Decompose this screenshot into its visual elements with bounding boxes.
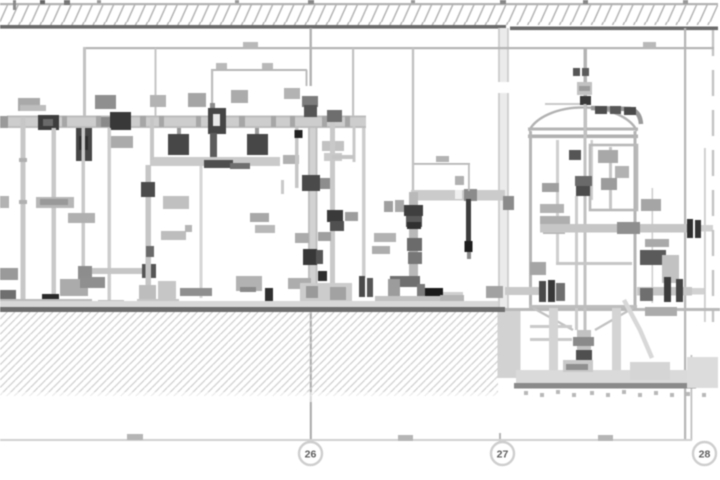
overhead dimension line: [84, 42, 714, 49]
ladder diagonal: [624, 300, 652, 358]
label x230: [231, 90, 248, 103]
label x165 y197: [163, 196, 189, 209]
vessel leg left: [544, 308, 564, 381]
pipe stub beyond upper flanges: [701, 225, 713, 232]
level instrument on centerline: [569, 150, 592, 196]
floor furniture x98-178: [98, 281, 179, 308]
flange pair at right wall upper: [687, 219, 701, 238]
label above CV: [188, 93, 206, 107]
standpipe x54 from valve V1: [52, 128, 57, 298]
drain leg x268: [265, 288, 273, 303]
riser drop from overhead line at x84: [83, 47, 86, 118]
valve cluster below side nozzle: [640, 239, 679, 283]
standpipe x83: [82, 128, 86, 273]
label x530 y263: [530, 262, 546, 275]
valve V1 on header: [38, 115, 59, 130]
faint drop below CV manifold: [200, 166, 203, 298]
label tags x250 y215: [250, 213, 275, 233]
label x68 y213: [68, 213, 95, 223]
bypass header below CV: [150, 118, 280, 169]
pump P2 black casing: [417, 284, 443, 305]
floor cluster near grid26: [300, 283, 352, 303]
left standpipe x22: [19, 117, 27, 301]
label box x237 y277: [236, 276, 262, 292]
vessel leg right: [606, 308, 626, 381]
vertical process pipe x413 valve stack: [404, 192, 423, 284]
flange marks along header: [62, 116, 350, 127]
valve V7 on riser x332: [327, 210, 344, 231]
label x0 y270: [0, 268, 18, 280]
hanger and valve at grid26: [302, 96, 318, 117]
label under bypass: [283, 155, 299, 164]
label left riser mid: [150, 95, 166, 107]
svg-text:27: 27: [497, 449, 509, 461]
bottom left nozzle pipe: [505, 280, 565, 302]
label inside vessel left: [542, 183, 559, 192]
vessel bottom head cone: [529, 262, 637, 341]
valve V6 on riser x311: [303, 249, 323, 265]
ceiling slab hatched band: [0, 3, 718, 30]
drop line x155: [155, 48, 157, 118]
pump bay support beam: [411, 189, 505, 201]
side nozzle pipe to right wall: [540, 222, 688, 234]
saddle block on foundation: [563, 360, 670, 380]
label above V2: [95, 95, 116, 109]
vessel top weld flange lines: [528, 128, 638, 139]
label under right nozzle: [645, 307, 677, 316]
bottom right nozzle pipe: [637, 277, 692, 302]
label smear right of riser: [322, 141, 344, 161]
riser x332: [327, 110, 342, 302]
floor slab top strip: [0, 301, 720, 312]
bottom dimension line: [0, 434, 692, 441]
dashed phantom line far right: [712, 30, 714, 322]
svg-text:28: 28: [699, 449, 711, 461]
internal manway frame: [590, 145, 637, 210]
secondary dimension line y70: [211, 63, 308, 108]
bay dimension line y163: [414, 156, 470, 191]
fitting on wall at beam level: [503, 196, 514, 210]
block valve V3 left of CV: [168, 128, 189, 155]
label x372 y235: [374, 233, 396, 242]
drop line x412: [412, 48, 414, 192]
riser pair x311: [308, 128, 318, 303]
label x440 y296: [440, 295, 464, 302]
label tags x385 y203: [384, 200, 404, 212]
block valve V4 right of CV: [247, 128, 268, 155]
grid bubble 27: [491, 442, 514, 465]
anchor dots below foundation: [524, 390, 706, 397]
grid bubble 28: [693, 442, 716, 465]
svg-text:26: 26: [305, 449, 317, 461]
vessel internal dip pipes: [556, 104, 593, 330]
label x488 y288: [486, 286, 503, 298]
label row x180 y290: [180, 288, 212, 296]
grid line column 26 upper stub: [310, 28, 312, 86]
bottom outlet with valve: [573, 330, 594, 372]
label right wall upper: [641, 199, 661, 211]
vertical line pipe x364 with flange pair: [359, 128, 373, 297]
valve V2 on header: [100, 112, 131, 130]
pump P2 baseplate: [375, 292, 463, 305]
valve V5 on riser x311: [302, 175, 331, 191]
grid line column 26 lower: [310, 300, 312, 440]
agitator shaft hanging from beam: [455, 176, 473, 259]
label x162 y232: [161, 225, 192, 240]
control valve CV1 with actuator: [208, 103, 226, 163]
vent gooseneck to the right: [545, 103, 641, 124]
label x0 y200: [0, 196, 9, 208]
drop pipe x297 with spec break: [281, 128, 303, 194]
floor hatch section: [0, 312, 498, 402]
grid bubble 26: [299, 442, 322, 465]
drain fitting on riser x311: [318, 271, 327, 281]
label column x540 y205: [540, 204, 570, 234]
vessel T1 dished top head: [529, 107, 637, 131]
label x283: [284, 88, 300, 99]
label tag x296 y234: [295, 233, 309, 243]
label x374 y245: [372, 246, 390, 254]
label N1: [18, 98, 46, 111]
label right of V8: [108, 136, 133, 148]
secondary line right of wall: [691, 355, 693, 440]
main header pipe: [7, 116, 366, 129]
vessel centerline upper: [584, 48, 588, 136]
label box left: [36, 197, 74, 208]
foundation slab: [514, 357, 718, 389]
lower-left branch pipe: [78, 264, 156, 280]
valve V8 on riser x83: [76, 128, 92, 161]
nozzle N2 top flange: [573, 68, 592, 105]
label tag x318 y232: [318, 232, 331, 241]
wall stub at left edge of header: [0, 116, 8, 128]
faint line x705: [704, 148, 706, 322]
label x288 y280: [288, 278, 311, 289]
survey tick marks above slab: [13, 0, 688, 10]
faint line right of vessel: [652, 188, 654, 303]
riser x354 lower: [332, 126, 356, 162]
grid line at column 28 / right wall: [684, 28, 686, 440]
riser x148: [141, 165, 155, 305]
standpipe x109: [108, 128, 112, 302]
vessel shell sides: [529, 131, 637, 308]
label right of V7: [345, 212, 358, 221]
pump P1 suction assembly: [0, 277, 105, 308]
pipe stub beyond lower flanges: [692, 288, 704, 295]
elbow to pump: [388, 276, 420, 297]
drop line x352: [352, 48, 354, 126]
wall column at grid 27: [497, 28, 521, 442]
